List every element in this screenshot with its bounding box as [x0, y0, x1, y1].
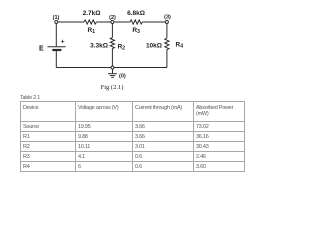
svg-text:(1): (1) — [53, 15, 60, 21]
battery E positive plate — [48, 46, 66, 48]
svg-text:6.8kΩ: 6.8kΩ — [127, 10, 145, 17]
svg-text:2.7kΩ: 2.7kΩ — [83, 10, 101, 17]
wire top: R1 to node2 — [96, 21, 112, 23]
svg-text:Fig (2.1): Fig (2.1) — [101, 84, 124, 91]
wire right branch lower (R4 to bottom wire) — [166, 50, 168, 68]
svg-text:R2: R2 — [118, 44, 126, 52]
ground bar 3 — [111, 76, 113, 78]
ground stem — [112, 69, 114, 73]
svg-text:R3: R3 — [132, 27, 140, 35]
resistor R1 zigzag — [84, 20, 96, 24]
svg-text:R1: R1 — [88, 27, 96, 35]
svg-text:(3): (3) — [164, 15, 171, 21]
svg-text:3.3kΩ: 3.3kΩ — [90, 42, 108, 49]
svg-text:+: + — [61, 38, 65, 45]
resistor R3 zigzag — [130, 20, 142, 24]
table caption — [20, 95, 40, 101]
node (1) circle — [55, 21, 58, 24]
resistor R2 zigzag — [110, 38, 114, 49]
node (2) circle — [111, 21, 114, 24]
wire bottom — [56, 67, 167, 69]
results table — [20, 101, 245, 172]
wire middle branch upper (node2 to R2) — [111, 22, 113, 38]
ground bar 1 — [108, 73, 117, 75]
svg-text:E: E — [39, 45, 44, 52]
ground bar 2 — [110, 75, 115, 77]
wire top: node2 to R3 — [112, 21, 130, 23]
wire middle branch lower (R2 to ground node) — [111, 49, 113, 68]
battery E negative plate — [52, 49, 61, 51]
node (3) circle — [165, 21, 168, 24]
svg-text:R4: R4 — [176, 42, 184, 50]
svg-text:(2): (2) — [109, 15, 116, 21]
svg-text:10kΩ: 10kΩ — [146, 42, 162, 49]
node (0) ground junction circle — [111, 66, 114, 69]
wire top: node1 to R1 — [56, 21, 84, 23]
svg-text:(0): (0) — [119, 74, 126, 80]
wire right branch upper (node3 to R4) — [166, 22, 168, 38]
wire top: R3 to node3 — [142, 21, 167, 23]
wire left branch lower (battery to bottom wire) — [55, 51, 57, 68]
wire left branch upper (node1 to battery) — [55, 22, 57, 46]
resistor R4 zigzag — [165, 38, 169, 50]
